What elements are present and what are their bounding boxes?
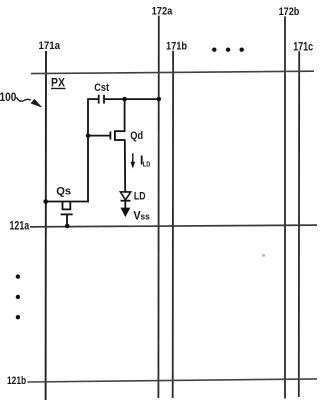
node: Qs drain on 171a [43,199,48,204]
wire: Qd gate branch [88,135,110,137]
node: Qs gate on 121a [65,224,70,229]
svg-text:LD: LD [143,161,151,169]
wire: cap left lead [88,98,98,100]
right plate [103,95,105,104]
node: Qd drain / cap [122,97,127,102]
transistor Qs [46,185,89,226]
svg-text:121a: 121a [10,220,30,232]
speck (scan artifact) [262,254,265,257]
svg-text:171c: 171c [293,41,313,53]
svg-text:LD: LD [134,191,146,203]
data line 171b [166,41,187,398]
channel U [63,202,71,210]
svg-text:121b: 121b [7,375,26,388]
svg-text:Cst: Cst [94,82,109,94]
label 100 with leader arrow [0,92,41,107]
svg-text:171b: 171b [166,41,187,53]
wire: cap right lead to 172a [105,98,159,100]
current arrow ILD [131,152,151,168]
svg-text:Qs: Qs [56,185,71,197]
svg-text:100: 100 [0,92,16,105]
drain arm [115,130,125,132]
diode LD [120,191,145,203]
drain wire from 171a [46,201,89,203]
wire: LD cathode stub [124,201,126,209]
svg-text:ss: ss [140,211,150,221]
source arm [115,139,125,141]
gate bar [109,131,111,139]
capacitor Cst [94,82,109,104]
svg-text:172a: 172a [152,6,173,18]
gate line 121a [10,220,318,232]
svg-text:171a: 171a [39,41,61,53]
gate bar [61,213,73,215]
gate line 121b [7,375,317,388]
node: Qd gate / storage [86,133,91,138]
label PX (underlined) [51,77,66,90]
wire: Qd drain up to storage node [124,98,126,132]
wire: storage node vertical (left) [87,98,89,202]
ellipsis dots (left) [16,274,20,319]
svg-text:Qd: Qd [130,130,143,142]
gate line (top, previous row) [31,71,314,73]
gate leg [66,214,68,226]
power line 172b [279,6,300,398]
ellipsis dots (top) [212,48,244,52]
left plate [98,95,100,104]
channel bar [114,130,116,141]
data line 171c [293,41,313,397]
transistor Qd [110,130,143,142]
power line 172a [152,6,173,398]
node: cap to 172a [157,97,162,102]
data line 171a [39,41,61,400]
terminal Vss (arrowhead) [120,208,150,223]
wire: Qd source down to LD [124,139,126,192]
svg-text:172b: 172b [279,6,300,18]
